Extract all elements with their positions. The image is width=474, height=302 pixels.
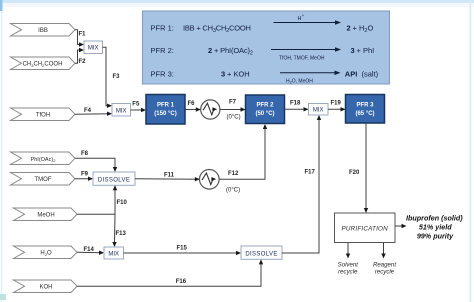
wire F20 [349,123,368,213]
svg-text:PhI(OAc)2: PhI(OAc)2 [31,157,57,163]
svg-text:MIX: MIX [108,252,119,258]
reactor PFR3 [346,95,385,124]
svg-text:(0°C): (0°C) [226,188,240,194]
svg-text:F11: F11 [164,173,175,179]
svg-text:(salt): (salt) [362,69,379,78]
svg-text:TfOH: TfOH [36,113,50,119]
wire F1 [75,30,86,47]
mixer MIX1 [84,41,103,54]
svg-text:PFR 1: PFR 1 [157,103,175,109]
wire F19 [328,101,346,112]
wire reagent recycle [373,243,396,276]
svg-text:H2O: H2O [40,251,52,257]
svg-text:F4: F4 [84,108,92,114]
svg-text:TfOH, TMOF, MeOH: TfOH, TMOF, MeOH [279,56,325,62]
svg-text:F7: F7 [229,100,237,106]
svg-text:F15: F15 [177,246,188,252]
svg-text:F1: F1 [79,32,87,38]
svg-text:F18: F18 [290,101,301,107]
svg-text:F3: F3 [113,74,121,80]
legend box [143,11,390,84]
heat exchanger HX1 [201,100,220,119]
chevron IBB [11,24,76,37]
dissolver DISSOLVE2 [241,246,282,259]
svg-text:DISSOLVE: DISSOLVE [245,252,277,258]
svg-text:Ibuprofen (solid): Ibuprofen (solid) [406,214,463,223]
wire F12 [219,124,267,194]
wire F16 [77,259,263,286]
svg-text:+ PhI: + PhI [357,46,375,55]
svg-text:99% purity: 99% purity [417,232,454,241]
reactor PFR2 [246,95,285,124]
svg-text:F12: F12 [228,171,239,177]
svg-text:F19: F19 [331,101,342,107]
svg-text:F9: F9 [81,172,89,178]
svg-text:F14: F14 [84,247,95,253]
svg-text:PFR 3:: PFR 3: [151,69,174,78]
chevron MeOH [14,208,78,221]
svg-text:3: 3 [221,69,225,78]
svg-text:MIX: MIX [313,108,324,114]
svg-text:DISSOLVE: DISSOLVE [98,178,130,184]
svg-text:(50 °C): (50 °C) [255,111,274,117]
svg-text:Solvent: Solvent [338,262,359,269]
legend row2 label PFR 2: [151,46,174,55]
chevron CH3CH2COOH [11,57,76,70]
svg-text:(65 °C): (65 °C) [355,111,374,117]
wire product out [395,224,407,228]
wire F14 [77,247,104,255]
svg-text:API: API [345,69,358,78]
svg-text:F5: F5 [132,102,140,108]
svg-text:F13: F13 [116,231,127,237]
wire F11 [135,173,200,182]
reactor PFR1 [146,95,185,125]
chevron TfOH [11,108,76,121]
svg-text:3: 3 [351,46,355,55]
svg-text:MIX: MIX [88,46,99,52]
svg-text:recycle: recycle [375,269,395,276]
svg-text:PFR 1:: PFR 1: [151,24,174,33]
svg-text:MIX: MIX [116,108,127,114]
wire F3 [103,47,121,108]
svg-text:F6: F6 [188,101,196,107]
svg-text:PFR 3: PFR 3 [356,102,374,108]
legend row2 reaction 2 + PhI(OAc)2 -> 3 + PhI [208,46,374,62]
legend row1 label PFR 1: [151,24,174,33]
svg-text:(0°C): (0°C) [227,115,241,121]
svg-text:recycle: recycle [338,269,358,276]
svg-text:2: 2 [208,46,212,55]
dissolver DISSOLVE1 [93,172,135,185]
wire F8 [75,151,117,172]
wire F2 [75,48,86,65]
wire F17 [282,115,321,253]
chevron KOH [14,280,78,293]
wire solvent recycle [338,243,359,276]
svg-text:KOH: KOH [39,285,52,291]
svg-text:51% yield: 51% yield [419,223,452,232]
wire F5 [131,102,147,113]
wire F18 [285,101,309,112]
svg-text:TMOF: TMOF [35,177,52,183]
svg-text:PURIFICATION: PURIFICATION [342,226,389,233]
wire F15 [124,246,242,256]
svg-text:PFR 2: PFR 2 [256,103,274,109]
legend row1 reaction IBB + CH3CH2COOH -> 2 + H2O [183,13,373,34]
svg-text:MeOH: MeOH [37,213,54,219]
heat exchanger HX2 [200,170,220,190]
svg-text:+ KOH: + KOH [227,69,250,78]
mixer MIX4 [104,247,124,259]
wire F6 [185,101,201,112]
purification unit [335,213,396,243]
wire F10 F13 MeOH branch [77,185,128,247]
mixer MIX2 [112,104,131,117]
svg-text:F2: F2 [79,59,87,65]
svg-text:F8: F8 [81,151,89,157]
svg-text:CH3CH2COOH: CH3CH2COOH [23,62,63,68]
svg-text:2: 2 [347,24,351,33]
legend row3 label PFR 3: [151,69,174,78]
chevron H2O [14,246,78,259]
mixer MIX3 [309,104,329,116]
chevron TMOF [11,173,76,186]
svg-text:Reagent: Reagent [373,262,396,269]
legend row3 reaction 3 + KOH -> API (salt) [221,69,379,84]
chevron PhI(OAc)2 [11,152,76,165]
svg-text:PFR 2:: PFR 2: [151,46,174,55]
product label Ibuprofen [406,214,463,241]
svg-text:IBB: IBB [38,28,48,34]
svg-text:F17: F17 [305,170,316,176]
svg-text:(150 °C): (150 °C) [154,111,176,117]
wire F9 [75,172,93,181]
wire F4 [75,108,112,116]
svg-text:F16: F16 [176,279,187,285]
wire F7 [220,100,246,121]
svg-text:F20: F20 [349,170,360,176]
svg-text:F10: F10 [117,200,128,206]
